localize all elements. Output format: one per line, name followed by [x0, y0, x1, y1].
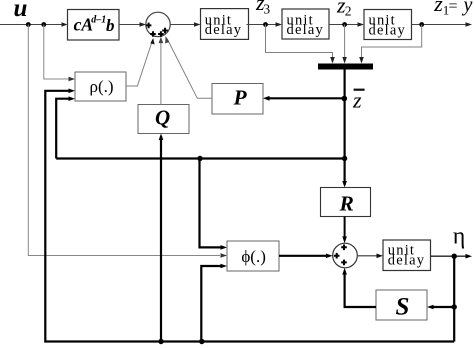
svg-text:P: P [233, 85, 248, 109]
svg-text:η: η [453, 223, 466, 249]
node z2 [342, 22, 347, 27]
wire eta to S [433, 306, 454, 308]
node z3 [263, 22, 268, 27]
block S [376, 290, 427, 320]
block phi [227, 241, 279, 271]
node bus R tap [342, 156, 347, 161]
node eta [452, 254, 457, 259]
wire z1 tap to bar [362, 25, 422, 62]
wire bus to R [344, 159, 346, 186]
svg-text:y: y [462, 0, 473, 16]
wire unit delay 3 to output y [412, 24, 471, 26]
wire eta feedback down [453, 256, 455, 341]
wire P to summer 1 (diagonal) [167, 39, 212, 99]
plus sign (S input) [341, 260, 347, 266]
svg-text:2: 2 [345, 4, 352, 19]
node u tap 1 [26, 22, 31, 27]
wire u input [0, 24, 66, 26]
wire Q to summer 1 [160, 39, 162, 105]
node z1 [419, 22, 424, 27]
svg-text:=: = [449, 0, 458, 15]
plus sign (P input) [162, 28, 168, 34]
summing junction 1 [146, 12, 170, 36]
block Q [138, 105, 189, 134]
combiner bar [318, 64, 373, 70]
wire R to summer 2 [344, 217, 346, 241]
wire u to rho input 1 (gray) [44, 25, 69, 80]
svg-text:delay: delay [287, 22, 324, 38]
wire zbar vertical [344, 70, 346, 159]
wire zbar bus horizontal [56, 157, 344, 159]
wire bus to phi input 1 [200, 159, 222, 248]
wire S to summer 2 [345, 271, 376, 307]
block unit delay 1 [201, 9, 249, 40]
wire bus to rho input 3 [56, 99, 69, 159]
wire unit delay 2 to unit delay 3 [329, 24, 363, 26]
node bottom Q tap [158, 339, 163, 344]
wire summer 1 to unit delay 1 [170, 24, 199, 26]
plus sign (phi input) [334, 253, 340, 259]
block cA^(d-1)b [68, 10, 120, 41]
plus sign (Q input) [158, 31, 164, 37]
node bottom phi tap [199, 339, 204, 344]
svg-text:Q: Q [155, 106, 170, 130]
wire unit delay 4 to eta output [431, 255, 471, 257]
block P [212, 84, 263, 115]
svg-text:S: S [396, 294, 410, 321]
wire rho to summer 1 (diagonal) [126, 41, 152, 87]
svg-text:delay: delay [388, 253, 425, 269]
svg-text:cA: cA [74, 15, 93, 35]
wire bottom feedback [45, 91, 454, 342]
wire bottom to Q [160, 136, 162, 342]
label zbar [354, 89, 365, 91]
wire phi to summer 2 [279, 255, 326, 257]
svg-text:z: z [352, 88, 362, 113]
node zbar P tap [342, 96, 348, 102]
svg-text:b: b [106, 16, 115, 35]
node u tap 2 [41, 22, 46, 27]
wire unit delay 1 to unit delay 2 [247, 24, 281, 26]
svg-text:delay: delay [369, 23, 406, 39]
wire cA b to summer 1 [119, 24, 141, 26]
wire z2 tap to bar [344, 25, 346, 62]
block unit delay 2 [282, 9, 329, 39]
svg-text:d–1: d–1 [91, 14, 106, 25]
plus sign (u input) [146, 23, 152, 29]
summing junction 2 [333, 243, 358, 268]
node eta S tap [452, 304, 457, 309]
svg-text:R: R [339, 192, 354, 216]
block unit delay 4 [383, 240, 431, 271]
svg-text:delay: delay [205, 22, 242, 38]
svg-text:ρ(.): ρ(.) [89, 77, 113, 96]
wire u to phi input 2 (gray) [28, 25, 220, 256]
svg-text:3: 3 [263, 2, 270, 17]
block unit delay 3 [364, 10, 412, 40]
wire zbar to P [269, 97, 345, 99]
svg-text:z: z [433, 0, 443, 16]
wire z3 tap to bar [266, 25, 333, 62]
svg-text:ϕ(.): ϕ(.) [241, 247, 266, 266]
wire bottom to phi input 3 [201, 266, 221, 342]
wire summer 2 to unit delay 4 [358, 255, 382, 257]
block R [321, 188, 371, 217]
svg-text:u: u [14, 0, 28, 22]
node bus phi tap [197, 156, 202, 161]
plus sign (rho input) [150, 31, 156, 37]
block rho [75, 72, 126, 101]
plus sign (R input) [341, 245, 347, 251]
